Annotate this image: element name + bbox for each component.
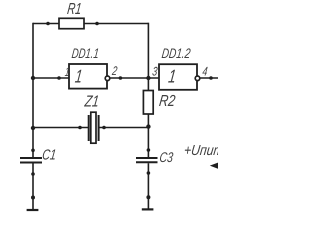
C1 top plate	[20, 157, 42, 159]
wire left rail upper	[32, 23, 34, 158]
crystal right electrode plate	[98, 115, 100, 141]
svg-text:R1: R1	[66, 0, 82, 18]
inversion bubble DD1.1 output	[105, 76, 110, 81]
svg-text:3: 3	[152, 65, 159, 79]
junction dot above C1	[31, 149, 35, 153]
junction dot above left ground	[31, 196, 35, 200]
svg-text:C3: C3	[159, 149, 175, 165]
wire left rail lower	[32, 163, 34, 210]
+Upit supply arrow	[210, 163, 218, 169]
op-amp U1 : logic inverter DD1.1 box	[69, 64, 107, 89]
wire top-left from rail to R1	[33, 23, 59, 25]
junction dot above right ground	[146, 195, 150, 199]
svg-text:4: 4	[202, 65, 209, 79]
crystal Z1	[89, 112, 99, 143]
op-amp U2 : logic inverter DD1.2 box	[159, 64, 197, 90]
junction dot below C3	[147, 171, 151, 175]
C1 bottom plate	[20, 162, 42, 164]
wire crystal right	[99, 127, 148, 129]
svg-text:C1: C1	[41, 148, 57, 164]
junction dot on DD1.1 input wire	[57, 76, 61, 80]
svg-text:DD1.1: DD1.1	[71, 45, 100, 61]
capacitor C1	[20, 158, 42, 163]
inversion bubble DD1.2 output	[195, 76, 200, 81]
svg-text:DD1.2: DD1.2	[161, 45, 192, 61]
junction dot right of R1	[95, 22, 99, 26]
svg-text:+Uпит.: +Uпит.	[183, 143, 218, 159]
svg-text:Z1: Z1	[83, 92, 100, 110]
crystal left electrode plate	[88, 115, 90, 141]
C3 bottom plate	[136, 161, 158, 163]
wire right rail mid	[147, 114, 149, 157]
junction dot above C3	[147, 148, 151, 152]
wire right rail upper	[147, 23, 149, 91]
wire top-right from R1 to right rail	[84, 23, 148, 25]
junction dot on DD1.2 output wire	[209, 76, 213, 80]
wire DD1.2 output	[200, 77, 218, 79]
capacitor C3	[136, 158, 158, 162]
svg-text:R2: R2	[158, 92, 176, 110]
wire crystal left	[33, 127, 88, 129]
resistor R1	[59, 18, 84, 28]
svg-text:2: 2	[111, 64, 118, 78]
wire DD1.1 input	[33, 77, 69, 79]
ground left	[27, 209, 39, 211]
junction dot left of R1	[46, 22, 50, 26]
junction dot gate input on left rail	[31, 76, 35, 80]
ground right	[142, 208, 154, 210]
junction dot crystal left lead	[78, 126, 82, 130]
crystal body rect	[91, 112, 96, 143]
junction dot crystal wire on left rail	[31, 126, 35, 130]
wire DD1.1 output to DD1.2 input	[110, 77, 159, 79]
resistor R2	[143, 91, 153, 115]
wire right rail lower	[147, 163, 149, 209]
junction dot crystal wire on right rail	[146, 124, 150, 128]
C3 top plate	[136, 157, 158, 159]
junction dot crystal right lead	[102, 126, 106, 130]
junction dot node pin2 wire	[119, 76, 123, 80]
junction dot below C1	[31, 172, 35, 176]
junction dot DD1.2 input on right rail	[146, 76, 150, 80]
